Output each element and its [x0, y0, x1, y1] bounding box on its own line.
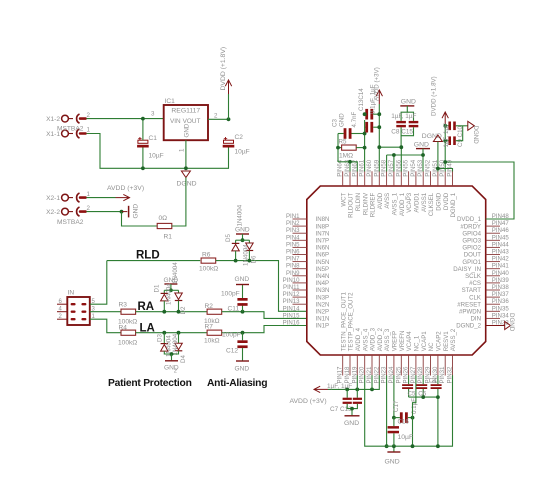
- svg-text:PIN40: PIN40: [492, 270, 510, 277]
- svg-text:AVDD (+3V): AVDD (+3V): [290, 398, 327, 405]
- svg-text:RLDREF: RLDREF: [370, 193, 377, 218]
- wire C9 C10 right plates to DGND: [456, 125, 468, 127]
- wire VCAP distribution to rail: [409, 396, 438, 398]
- svg-text:DVDD: DVDD: [443, 192, 450, 210]
- svg-text:PIN34: PIN34: [492, 312, 510, 319]
- wire R7 to C12 junction to PIN16: [222, 326, 307, 333]
- svg-text:DGND: DGND: [177, 181, 197, 188]
- svg-text:IN5P: IN5P: [316, 266, 330, 273]
- svg-text:1N4004: 1N4004: [243, 244, 250, 266]
- svg-text:AVSS_3: AVSS_3: [384, 328, 391, 351]
- svg-text:IN2N: IN2N: [316, 301, 330, 308]
- wire AVSS_4 stub down to ground rail: [365, 375, 386, 446]
- junction AVDD at C14: [377, 125, 381, 129]
- junction AVSS_1 on GND bus: [392, 153, 396, 157]
- svg-text:AVDD (+3V): AVDD (+3V): [107, 185, 144, 192]
- wire AVDD bottom distribution: [328, 375, 379, 389]
- capacitor C16 10uF: [393, 418, 395, 427]
- svg-text:100kΩ: 100kΩ: [118, 340, 137, 347]
- svg-text:C12: C12: [226, 348, 238, 355]
- wire ground rail to C2 bottom: [143, 150, 229, 168]
- svg-text:PIN43: PIN43: [492, 249, 510, 256]
- svg-text:1: 1: [179, 148, 186, 152]
- svg-text:DVDD (+1.8V): DVDD (+1.8V): [431, 76, 438, 116]
- bottom pins PIN17-PIN32 stubs and labels: [342, 355, 344, 376]
- diode D3: [163, 333, 165, 344]
- junction AVDD bus: [377, 145, 381, 149]
- ground GND above C11: [236, 284, 249, 286]
- supply arrow DVDD (+1.8V) at chip top right: [442, 112, 448, 126]
- svg-text:1µF, 1µF: 1µF, 1µF: [327, 383, 352, 390]
- svg-text:GND: GND: [183, 123, 190, 137]
- svg-text:PIN13: PIN13: [283, 298, 301, 305]
- ground DGND right of C9: [468, 121, 475, 130]
- junction DVDD at C10: [443, 139, 447, 143]
- svg-text:DGND: DGND: [436, 192, 443, 211]
- svg-text:IN: IN: [68, 290, 75, 297]
- ground GND below D3 D4: [171, 354, 173, 360]
- diode D5: [232, 242, 240, 244]
- svg-text:GND: GND: [235, 227, 250, 234]
- svg-text:VCAP3: VCAP3: [406, 192, 413, 213]
- svg-text:C16: C16: [398, 419, 410, 426]
- svg-text:R4: R4: [119, 325, 128, 332]
- wire IN pin3 to R3 (RA line): [90, 311, 121, 313]
- svg-text:C4: C4: [429, 378, 437, 385]
- junction AVDD_3 stem: [370, 388, 374, 392]
- wire AVDD_3 stub down to AVDD wire: [371, 375, 373, 389]
- junction D4 at LA line: [177, 331, 181, 335]
- svg-text:X1-2: X1-2: [46, 116, 60, 123]
- svg-text:PIN37: PIN37: [492, 291, 510, 298]
- junction DVDD at C9: [443, 124, 447, 128]
- junction D2 at RA line: [177, 310, 181, 314]
- svg-text:1N4004: 1N4004: [237, 204, 244, 226]
- svg-text:PIN1: PIN1: [286, 213, 300, 220]
- supply arrow AVDD (+3V) at chip top: [376, 90, 382, 104]
- svg-text:X2-2: X2-2: [46, 209, 60, 216]
- svg-text:10µF: 10µF: [149, 153, 164, 160]
- wire C8 C15 bottoms join to AVDD_1: [401, 127, 413, 135]
- svg-text:C8 C15: C8 C15: [391, 129, 413, 136]
- svg-text:PIN7: PIN7: [286, 256, 300, 263]
- top pins PIN64-PIN49 stubs and labels: [342, 171, 344, 186]
- svg-text:IN8N: IN8N: [316, 216, 330, 223]
- wire R1 to DGND rail: [172, 178, 186, 227]
- capacitor C2: [224, 140, 234, 143]
- svg-text:10µF: 10µF: [398, 434, 414, 441]
- svg-text:DOUT: DOUT: [464, 252, 482, 259]
- svg-text:AVDD_1: AVDD_1: [399, 192, 406, 216]
- svg-text:R6: R6: [202, 252, 211, 259]
- wire X1-2 to IC1 VIN: [87, 118, 164, 120]
- svg-text:PIN9: PIN9: [286, 270, 300, 277]
- wire AVDD vertical to AVDD stub: [378, 104, 380, 172]
- wire C7 C13 bottoms to GND: [347, 404, 357, 409]
- svg-text:PIN16: PIN16: [283, 320, 301, 327]
- wire diodes D3 D4 bottom node: [164, 351, 178, 354]
- svg-text:IN7P: IN7P: [316, 238, 330, 245]
- svg-text:10µF: 10µF: [235, 149, 250, 156]
- svg-text:R7: R7: [205, 324, 214, 331]
- svg-text:IN7N: IN7N: [316, 230, 330, 237]
- svg-text:IN3P: IN3P: [316, 294, 330, 301]
- ground GND below rail: [393, 446, 395, 451]
- wire C17 right up to NC_1 stub: [413, 375, 416, 417]
- svg-text:D3: D3: [157, 334, 164, 342]
- junction IC1 GND at rail: [184, 166, 188, 170]
- junction at RLDOUT branch: [348, 160, 352, 164]
- svg-text:1N4004: 1N4004: [165, 283, 172, 305]
- svg-text:PIN38: PIN38: [492, 284, 510, 291]
- svg-text:PIN2: PIN2: [286, 220, 300, 227]
- junction DVDD bus at rail: [443, 160, 447, 164]
- wire PIN33 to DGND: [486, 325, 505, 327]
- svg-text:RLDINV: RLDINV: [362, 192, 369, 215]
- svg-text:DGND: DGND: [508, 313, 515, 332]
- svg-text:Patient Protection: Patient Protection: [108, 378, 192, 389]
- svg-text:PIN39: PIN39: [492, 277, 510, 284]
- svg-text:GND: GND: [344, 420, 359, 427]
- junction R5 right: [363, 146, 367, 150]
- wire RLD line to R6: [107, 260, 200, 262]
- svg-text:PIN6: PIN6: [286, 249, 300, 256]
- junction R5 left: [336, 146, 340, 150]
- junction C11 node: [241, 310, 245, 314]
- wire IC1 VOUT to junction: [208, 118, 229, 120]
- svg-text:WCT: WCT: [340, 193, 347, 207]
- junction DGND bus: [436, 167, 440, 171]
- wire IN pin5 up to RLD line: [90, 261, 107, 305]
- wire R4 to LA junctions to R7: [136, 332, 208, 334]
- svg-text:PIN5: PIN5: [286, 241, 300, 248]
- svg-text:VIN: VIN: [170, 118, 181, 125]
- svg-text:PIN35: PIN35: [492, 305, 510, 312]
- svg-text:C17: C17: [393, 400, 400, 412]
- IC U1 ADS1298 outline: [307, 186, 486, 355]
- ground GND below C7 C13: [345, 415, 360, 417]
- svg-text:RESV1: RESV1: [443, 331, 450, 352]
- svg-text:10kΩ: 10kΩ: [204, 338, 220, 345]
- capacitor C4: [437, 375, 439, 384]
- svg-text:MSTBA2: MSTBA2: [57, 126, 84, 133]
- junction X2-2 GND node: [120, 210, 124, 214]
- svg-text:IC1: IC1: [165, 98, 176, 105]
- wire IC1 GND pin to rail: [185, 140, 187, 168]
- svg-text:DGND: DGND: [472, 126, 479, 145]
- svg-text:CLKSEL: CLKSEL: [428, 192, 435, 216]
- connector IN (header): [67, 297, 90, 325]
- diode D2: [175, 293, 183, 300]
- svg-text:VCAP1: VCAP1: [421, 331, 428, 352]
- wire R6 to D5 D6 to chip PIN14: [216, 261, 307, 312]
- svg-text:2: 2: [174, 368, 177, 374]
- svg-text:IN1P: IN1P: [316, 323, 330, 330]
- svg-text:GPIO3: GPIO3: [462, 238, 481, 245]
- svg-text:IN5N: IN5N: [316, 259, 330, 266]
- capacitor C11: [242, 303, 244, 311]
- svg-text:AVSS1: AVSS1: [421, 192, 428, 212]
- resistor R2: [207, 309, 222, 314]
- junction VCAP2 branch: [436, 395, 440, 399]
- svg-text:PIN55: PIN55: [403, 159, 410, 177]
- capacitor C15: [409, 121, 419, 123]
- svg-text:NC: NC: [428, 342, 435, 351]
- junction C3 right rail: [363, 132, 367, 136]
- svg-text:Anti-Aliasing: Anti-Aliasing: [207, 378, 267, 389]
- svg-text:PIN17: PIN17: [337, 366, 344, 384]
- capacitor C12: [242, 333, 244, 341]
- svg-text:R5: R5: [339, 139, 347, 146]
- junction C13 left rail: [363, 112, 367, 116]
- capacitor C5: [402, 384, 413, 386]
- svg-text:2: 2: [87, 205, 91, 212]
- svg-text:IN1N: IN1N: [316, 316, 330, 323]
- wire VCAP4 stub through C5 to wire: [408, 375, 410, 384]
- svg-text:DGND_1: DGND_1: [450, 192, 457, 217]
- capacitor C7: [346, 389, 348, 397]
- svg-text:IN4N: IN4N: [316, 273, 330, 280]
- wire DGND stem to DGND stub and DGND_1: [437, 142, 439, 172]
- ground GND at X2-2 (rotated bar): [122, 211, 128, 213]
- capacitor C6: [422, 375, 424, 384]
- svg-text:DVDD (+1.8V): DVDD (+1.8V): [220, 47, 227, 91]
- svg-text:SCLK: SCLK: [465, 273, 481, 280]
- svg-text:#DRDY: #DRDY: [460, 223, 481, 230]
- junction AVSS1 GND stem: [421, 153, 425, 157]
- svg-text:AVDD1: AVDD1: [414, 192, 421, 212]
- svg-text:IN4P: IN4P: [316, 280, 330, 287]
- svg-text:PIN25: PIN25: [395, 366, 402, 384]
- svg-text:1: 1: [87, 127, 91, 134]
- left pins PIN1-PIN16 stubs and labels: [293, 218, 307, 220]
- svg-text:GND: GND: [338, 113, 345, 127]
- junction D6 at RLD line: [248, 259, 252, 263]
- ground DGND at PIN33: [505, 322, 511, 330]
- svg-text:X2-1: X2-1: [46, 195, 60, 202]
- svg-text:GND: GND: [235, 276, 250, 283]
- svg-text:RLDIN: RLDIN: [355, 193, 362, 211]
- svg-text:#PWDN: #PWDN: [459, 309, 481, 316]
- svg-text:GND: GND: [401, 99, 416, 106]
- junction VOUT node: [227, 117, 231, 121]
- svg-text:CLK: CLK: [469, 294, 481, 301]
- svg-text:D6: D6: [251, 255, 258, 263]
- wire IN pin1 down to LA line, to R4: [90, 319, 121, 333]
- wire C17 right down to rail: [412, 418, 414, 447]
- junction C17 at rail: [411, 444, 415, 448]
- svg-text:#RESET: #RESET: [457, 301, 481, 308]
- junction D3 at LA line: [162, 331, 166, 335]
- svg-text:VOUT: VOUT: [183, 118, 201, 125]
- svg-text:C1: C1: [149, 135, 158, 142]
- wire VREFP stub down through C16 C17 node: [393, 375, 395, 417]
- svg-text:PIN31: PIN31: [439, 366, 446, 384]
- svg-text:R2: R2: [205, 303, 214, 310]
- wire X2-2 down to R1: [122, 212, 158, 226]
- svg-text:D4: D4: [180, 355, 187, 363]
- svg-text:C11: C11: [228, 305, 240, 312]
- svg-text:DGND_2: DGND_2: [456, 323, 481, 330]
- svg-text:1µF, 1µF: 1µF, 1µF: [391, 113, 416, 120]
- resistor R6 on RLD line: [201, 258, 216, 263]
- junction C12 node: [241, 331, 245, 335]
- svg-text:AVSS_4: AVSS_4: [362, 328, 369, 351]
- svg-text:VREFP: VREFP: [392, 331, 399, 351]
- capacitor C9: [445, 125, 448, 127]
- svg-text:GND: GND: [385, 459, 400, 466]
- svg-text:PIN52: PIN52: [425, 159, 432, 177]
- diode D4: [178, 333, 180, 344]
- svg-text:IN2P: IN2P: [316, 309, 330, 316]
- wire RLD feedback right rail to RLDINV stub: [364, 120, 366, 172]
- wire DVDD bus to PIN48: [445, 162, 514, 219]
- wire RLD feedback left rail: [337, 134, 339, 162]
- svg-text:GND: GND: [133, 204, 140, 219]
- capacitor C1: [138, 140, 148, 143]
- svg-text:GPIO1: GPIO1: [462, 259, 481, 266]
- svg-text:R3: R3: [119, 301, 128, 308]
- svg-text:IN8P: IN8P: [316, 223, 330, 230]
- svg-text:PIN15: PIN15: [283, 312, 301, 319]
- junction C7 stem: [345, 388, 349, 392]
- diode D6: [246, 243, 254, 250]
- wire X1-1 down to ground rail: [87, 134, 143, 169]
- wire ground rail bottom: [386, 375, 453, 446]
- svg-text:1MΩ: 1MΩ: [339, 153, 353, 160]
- svg-text:AVDD_3: AVDD_3: [370, 327, 377, 351]
- svg-text:PIN18: PIN18: [344, 366, 351, 384]
- resistor R3: [121, 309, 136, 314]
- svg-text:TESTP_PACE_OUT2: TESTP_PACE_OUT2: [348, 292, 355, 351]
- junction C1 top: [141, 117, 145, 121]
- junction C16 C17 node: [392, 416, 396, 420]
- svg-text:GND: GND: [235, 366, 250, 373]
- junction VCAP1 on wire: [421, 395, 425, 399]
- diode D1: [161, 292, 169, 294]
- junction AVDD at C13: [377, 112, 381, 116]
- svg-text:NC_1: NC_1: [414, 335, 421, 351]
- svg-text:3: 3: [151, 111, 155, 118]
- svg-text:AVDD: AVDD: [377, 192, 384, 209]
- wire top node to diodes D5 D6: [236, 239, 250, 241]
- wire VOUT junction up to DVDD arrow: [228, 94, 230, 119]
- svg-text:PIN44: PIN44: [492, 241, 510, 248]
- svg-text:DAISY_IN: DAISY_IN: [453, 266, 481, 273]
- junction AVDD_4 stem: [355, 388, 359, 392]
- wire jog to RLDOUT and RLDIN stubs: [338, 162, 357, 172]
- wire AVSS_3 stub down to ground rail: [386, 375, 388, 446]
- svg-text:GND: GND: [414, 141, 429, 148]
- svg-text:IN6P: IN6P: [316, 252, 330, 259]
- svg-text:IN3N: IN3N: [316, 287, 330, 294]
- junction C1 bottom: [141, 166, 145, 170]
- capacitor C17: [394, 417, 400, 419]
- svg-text:2: 2: [214, 112, 218, 119]
- voltage regulator IC1 REG1117: [164, 105, 208, 140]
- svg-text:GPIO2: GPIO2: [462, 245, 481, 252]
- svg-text:IN6N: IN6N: [316, 245, 330, 252]
- capacitor C3: [338, 133, 344, 135]
- svg-text:GPIO4: GPIO4: [462, 230, 481, 237]
- wire R2 to C11 junction to PIN15: [222, 312, 307, 319]
- svg-text:AVDD_4: AVDD_4: [355, 327, 362, 351]
- svg-text:VCAP2: VCAP2: [436, 331, 443, 352]
- capacitor C13 bottom: [356, 375, 358, 397]
- svg-text:AVDD_2: AVDD_2: [377, 327, 384, 351]
- junction VCAP rail: [436, 444, 440, 448]
- svg-text:AVSS: AVSS: [384, 193, 391, 209]
- junction D3 D4 bottom node: [170, 352, 174, 356]
- svg-text:AVSS_2: AVSS_2: [450, 328, 457, 351]
- svg-text:D2: D2: [180, 306, 187, 314]
- svg-text:PIN8: PIN8: [286, 263, 300, 270]
- svg-text:C7 C13: C7 C13: [330, 406, 352, 413]
- svg-text:C2: C2: [235, 134, 244, 141]
- svg-text:D1: D1: [154, 284, 161, 292]
- junction C7 C13 bottom: [350, 407, 354, 411]
- svg-text:VREFN: VREFN: [399, 331, 406, 352]
- wire GND bus to AVSS AVSS_1 AVSS1 stubs: [387, 154, 423, 156]
- svg-text:2: 2: [87, 112, 91, 119]
- junction D1 D2 top node: [169, 288, 173, 292]
- junction C17 right: [411, 416, 415, 420]
- svg-text:C5: C5: [408, 390, 416, 397]
- resistor R7: [207, 330, 222, 335]
- svg-text:PIN12: PIN12: [283, 291, 301, 298]
- resistor R4: [121, 330, 136, 335]
- ground GND below C12: [236, 360, 249, 362]
- svg-text:1: 1: [87, 191, 91, 198]
- junction D1 at RA line: [162, 310, 166, 314]
- wire X2-2 to GND and R1: [87, 211, 122, 213]
- capacitor C14: [364, 126, 367, 128]
- IN pin stubs left: [57, 303, 67, 305]
- junction AVSS_3 at rail: [385, 444, 389, 448]
- svg-text:100kΩ: 100kΩ: [199, 266, 218, 273]
- svg-text:PIN60: PIN60: [366, 159, 373, 177]
- junction GND stem at rail: [392, 444, 396, 448]
- svg-text:PIN47: PIN47: [492, 220, 510, 227]
- wire AVDD bus to AVDD_1 stub: [379, 147, 401, 171]
- svg-text:PIN10: PIN10: [283, 277, 301, 284]
- svg-text:4.7nF: 4.7nF: [351, 111, 358, 127]
- junction D5 D6 top node: [241, 238, 245, 242]
- capacitor C8: [396, 121, 406, 123]
- resistor R1: [157, 223, 172, 228]
- capacitor C10: [445, 140, 448, 142]
- svg-text:AVDD (+3V): AVDD (+3V): [373, 67, 380, 101]
- svg-text:DVDD_1: DVDD_1: [457, 216, 482, 223]
- svg-text:REG1117: REG1117: [171, 107, 200, 114]
- resistor R5: [338, 147, 342, 149]
- ground DGND below rail: [181, 171, 190, 178]
- svg-text:PIN41: PIN41: [492, 263, 510, 270]
- svg-text:0Ω: 0Ω: [159, 215, 168, 222]
- svg-text:PIN36: PIN36: [492, 298, 510, 305]
- svg-text:RLD: RLD: [136, 250, 160, 262]
- svg-text:MSTBA2: MSTBA2: [57, 219, 84, 226]
- svg-text:#CS: #CS: [469, 280, 481, 287]
- svg-text:PIN54: PIN54: [410, 159, 417, 177]
- junction D5 at RLD line: [234, 259, 238, 263]
- supply arrow DVDD (+1.8V): [225, 80, 231, 94]
- svg-text:1N4004: 1N4004: [172, 262, 179, 284]
- capacitor C13: [364, 113, 367, 115]
- svg-text:START: START: [462, 287, 482, 294]
- svg-text:DIN: DIN: [471, 316, 482, 323]
- svg-text:VCAP4: VCAP4: [406, 331, 413, 352]
